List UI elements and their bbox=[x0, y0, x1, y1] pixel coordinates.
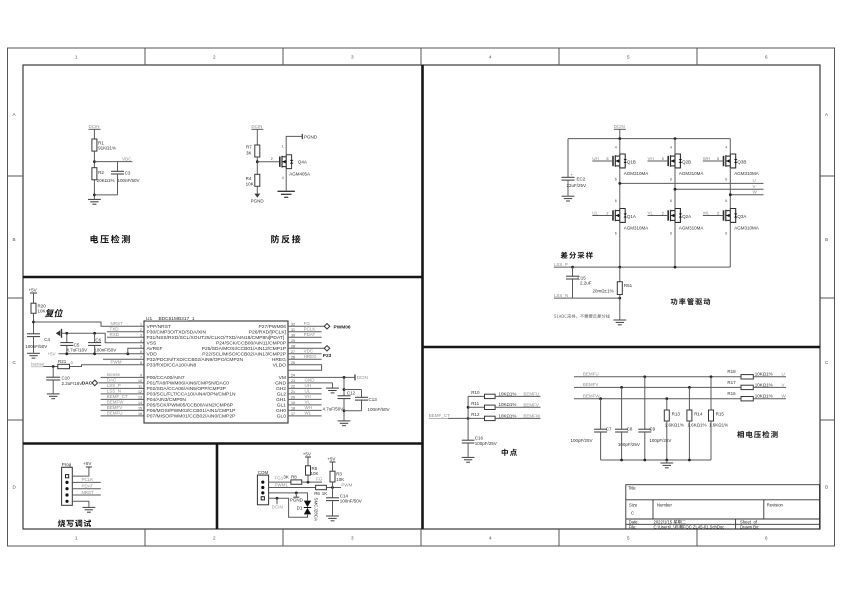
svg-text:LSS_N: LSS_N bbox=[554, 293, 568, 298]
svg-text:AGM405A: AGM405A bbox=[289, 171, 310, 176]
svg-text:4: 4 bbox=[725, 146, 727, 150]
net PCLK pin31 bbox=[288, 327, 322, 332]
svg-text:GL1: GL1 bbox=[277, 402, 287, 408]
resistor R4 bbox=[246, 174, 260, 186]
wire Q1A source to LSS rail bbox=[615, 223, 620, 268]
svg-text:1: 1 bbox=[282, 145, 284, 149]
node WH gate bbox=[703, 156, 724, 161]
svg-text:U: U bbox=[782, 372, 785, 377]
transistor Q1A bbox=[613, 209, 648, 231]
svg-text:P33/RXD/CCA10/AIN8: P33/RXD/CCA10/AIN8 bbox=[147, 362, 197, 368]
resistor R5 bbox=[306, 457, 319, 482]
svg-text:P06/MOSI/PWM03/CCB01/AIN1/CMP1: P06/MOSI/PWM03/CCB01/AIN1/CMP1P bbox=[147, 408, 236, 414]
svg-text:C3: C3 bbox=[125, 171, 131, 176]
power flag PGND (top) bbox=[302, 134, 317, 140]
svg-text:4.7uF/50V: 4.7uF/50V bbox=[323, 406, 344, 411]
net V rail bbox=[674, 184, 764, 191]
svg-text:10KΩ1%: 10KΩ1% bbox=[755, 372, 773, 377]
svg-text:GH0: GH0 bbox=[276, 408, 286, 414]
label 中点 bbox=[502, 449, 517, 456]
ground (R51) bbox=[613, 320, 626, 325]
svg-text:D1: D1 bbox=[297, 506, 303, 511]
svg-text:C16: C16 bbox=[475, 436, 484, 441]
net WH pin18 bbox=[288, 405, 322, 410]
svg-text:U: U bbox=[753, 178, 756, 183]
svg-text:5: 5 bbox=[140, 345, 142, 349]
ground (C4) bbox=[27, 353, 40, 358]
svg-text:P01/TA8/PWM06/AIN6/CMP5N/DAC0: P01/TA8/PWM06/AIN6/CMP5N/DAC0 bbox=[147, 380, 230, 386]
net WL pin17 bbox=[288, 411, 322, 416]
svg-text:C8: C8 bbox=[627, 427, 633, 432]
svg-text:Q1A: Q1A bbox=[627, 214, 636, 219]
svg-text:Number: Number bbox=[657, 503, 672, 508]
svg-text:Isense: Isense bbox=[31, 361, 45, 366]
svg-text:0: 0 bbox=[71, 361, 73, 365]
net +5V wire (VDD) bbox=[48, 352, 145, 357]
svg-text:FG: FG bbox=[304, 321, 311, 326]
ground (C14) bbox=[326, 516, 339, 521]
svg-text:VH: VH bbox=[305, 394, 311, 399]
capacitor C13 bbox=[344, 390, 390, 413]
svg-text:4: 4 bbox=[670, 146, 672, 150]
svg-text:AGM310MA: AGM310MA bbox=[734, 225, 759, 230]
label 防反接 bbox=[271, 235, 300, 244]
power flag DCIN (VM) bbox=[355, 374, 368, 380]
svg-text:C13: C13 bbox=[369, 397, 378, 402]
label 烧写调试 bbox=[58, 520, 91, 527]
node DCIN (reverse protect) bbox=[251, 124, 263, 145]
svg-text:1.6KΩ1%: 1.6KΩ1% bbox=[687, 423, 706, 428]
BLOCK-DIVIDERS bbox=[23, 65, 820, 529]
svg-text:+: + bbox=[571, 173, 573, 177]
ground (C16) bbox=[462, 457, 475, 462]
svg-text:4: 4 bbox=[615, 146, 617, 150]
net VH pin20 bbox=[288, 394, 322, 399]
wire top DC rail bbox=[568, 137, 730, 140]
svg-text:LSS_P: LSS_P bbox=[107, 383, 121, 388]
transistor Q2B bbox=[668, 154, 703, 176]
net VL pin19 bbox=[288, 400, 322, 405]
svg-text:NRST: NRST bbox=[111, 321, 124, 326]
svg-text:VL: VL bbox=[305, 400, 311, 405]
svg-text:UH: UH bbox=[592, 156, 599, 161]
svg-text:+5V: +5V bbox=[48, 352, 56, 357]
svg-text:1: 1 bbox=[75, 55, 78, 60]
wire R21 to PWM pin8 bbox=[70, 360, 145, 367]
resistor R14 bbox=[687, 387, 707, 460]
resistor R3 bbox=[330, 462, 344, 488]
wire Q4A drain to PGND rail bbox=[286, 136, 302, 154]
svg-text:Isense: Isense bbox=[107, 372, 121, 377]
transistor Q3B bbox=[724, 154, 759, 176]
ground (phase) bbox=[660, 460, 673, 468]
SECTION-VD bbox=[88, 124, 140, 243]
net U rail bbox=[618, 178, 763, 185]
svg-text:C15: C15 bbox=[578, 275, 587, 280]
svg-text:Prog: Prog bbox=[62, 462, 72, 467]
svg-text:C: C bbox=[631, 511, 634, 516]
svg-text:R51: R51 bbox=[624, 283, 633, 288]
resistor R11 bbox=[468, 401, 540, 409]
svg-text:14: 14 bbox=[138, 401, 142, 405]
svg-text:6: 6 bbox=[725, 178, 727, 182]
net GND pin23 bbox=[288, 378, 333, 388]
resistor R6 bbox=[314, 485, 327, 496]
svg-text:AGM310MA: AGM310MA bbox=[679, 225, 704, 230]
svg-text:6: 6 bbox=[670, 178, 672, 182]
svg-text:2: 2 bbox=[717, 211, 719, 215]
svg-text:RXD: RXD bbox=[110, 332, 120, 337]
svg-text:5: 5 bbox=[627, 536, 630, 541]
net HREG pin26 bbox=[288, 354, 322, 359]
node VL gate bbox=[648, 210, 669, 215]
svg-text:10K: 10K bbox=[311, 471, 319, 476]
net BEMFV rail bbox=[574, 382, 741, 389]
svg-text:13: 13 bbox=[138, 396, 142, 400]
svg-text:GND: GND bbox=[275, 380, 286, 386]
svg-text:C4: C4 bbox=[44, 337, 50, 342]
svg-text:UH: UH bbox=[305, 383, 312, 388]
svg-text:1.6KΩ1%: 1.6KΩ1% bbox=[709, 423, 728, 428]
diode D1 TVS bbox=[297, 498, 319, 522]
svg-text:R4: R4 bbox=[246, 176, 252, 181]
svg-text:PCLK: PCLK bbox=[82, 477, 94, 482]
svg-text:1: 1 bbox=[75, 536, 78, 541]
net LSS_N bbox=[554, 293, 621, 300]
ground (C12/C13) bbox=[338, 421, 351, 426]
svg-text:UL: UL bbox=[592, 210, 598, 215]
wire R1 to node VDC bbox=[93, 151, 95, 168]
svg-text:V: V bbox=[782, 382, 785, 387]
svg-text:P32/PDCIN/TXD/CCB02/AIN9/OPO/C: P32/PDCIN/TXD/CCB02/AIN9/OPO/CMP2N bbox=[147, 357, 244, 363]
svg-text:VSS: VSS bbox=[147, 340, 158, 346]
svg-text:LSS_N: LSS_N bbox=[107, 389, 121, 394]
svg-text:1: 1 bbox=[140, 323, 142, 327]
svg-text:PWM: PWM bbox=[341, 482, 352, 487]
svg-text:Q3B: Q3B bbox=[737, 159, 746, 164]
svg-text:20mΩ±1%: 20mΩ±1% bbox=[593, 288, 614, 293]
wire pin29 stub bbox=[288, 342, 322, 344]
svg-text:P26/RXD/[PCLK]: P26/RXD/[PCLK] bbox=[249, 329, 287, 335]
svg-text:DAC: DAC bbox=[82, 381, 93, 387]
svg-text:R12: R12 bbox=[471, 412, 480, 417]
svg-text:4: 4 bbox=[489, 536, 492, 541]
net PDAT pin30 bbox=[288, 332, 322, 337]
svg-text:B: B bbox=[13, 237, 16, 242]
svg-text:PWM06: PWM06 bbox=[334, 324, 351, 330]
wire pin25 loop bbox=[288, 365, 322, 371]
svg-text:AGM310MA: AGM310MA bbox=[679, 171, 704, 176]
resistor R8 bbox=[283, 474, 301, 484]
transistor Q2A bbox=[668, 209, 703, 231]
svg-text:BEMFW: BEMFW bbox=[523, 414, 541, 419]
svg-text:R16: R16 bbox=[727, 391, 736, 396]
node DCIN (voltage detect) bbox=[89, 124, 101, 139]
resistor R16 bbox=[727, 391, 786, 401]
svg-text:5: 5 bbox=[717, 157, 719, 161]
svg-text:R18: R18 bbox=[727, 369, 736, 374]
resistor R1 bbox=[92, 139, 116, 151]
svg-text:10K: 10K bbox=[246, 182, 254, 187]
svg-text:8: 8 bbox=[140, 361, 142, 365]
resistor R12 bbox=[468, 412, 541, 420]
svg-text:10KΩ1%: 10KΩ1% bbox=[755, 394, 773, 399]
svg-text:UL: UL bbox=[305, 389, 311, 394]
node WL gate bbox=[703, 210, 724, 215]
svg-text:20KΩ1%: 20KΩ1% bbox=[97, 178, 115, 183]
svg-text:WH: WH bbox=[703, 156, 711, 161]
net flag DAC bbox=[82, 378, 144, 387]
svg-text:EC2: EC2 bbox=[577, 177, 586, 182]
wire AVREF pin5 bbox=[128, 348, 144, 354]
svg-text:PGND: PGND bbox=[304, 134, 318, 139]
net DCIN (COM) bbox=[272, 498, 283, 509]
svg-text:BEMFV: BEMFV bbox=[523, 402, 539, 407]
svg-text:100pF/25V: 100pF/25V bbox=[571, 438, 593, 443]
power flag +5V (reset) bbox=[29, 288, 38, 304]
svg-text:DAC: DAC bbox=[107, 378, 117, 383]
svg-text:BEMFU: BEMFU bbox=[583, 372, 599, 377]
net PCLK (Prog) bbox=[72, 477, 101, 482]
net NRST wire bbox=[34, 321, 145, 326]
node gate Q4A bbox=[256, 157, 279, 163]
svg-text:100pF/25V: 100pF/25V bbox=[618, 442, 640, 447]
svg-text:GH2: GH2 bbox=[276, 386, 286, 392]
svg-text:VDD: VDD bbox=[147, 351, 158, 357]
svg-text:R21: R21 bbox=[58, 359, 67, 364]
svg-text:VL: VL bbox=[648, 210, 654, 215]
svg-text:DCIN: DCIN bbox=[272, 504, 283, 509]
svg-text:3K: 3K bbox=[283, 474, 289, 479]
connector Prog bbox=[62, 462, 73, 505]
capacitor C9 bbox=[638, 377, 671, 460]
net PDAT (Prog) bbox=[72, 484, 101, 489]
svg-text:5: 5 bbox=[627, 55, 630, 60]
net TXD bbox=[107, 327, 144, 332]
svg-text:6: 6 bbox=[765, 55, 768, 60]
svg-text:7: 7 bbox=[140, 356, 142, 360]
connector COM bbox=[257, 470, 268, 505]
svg-text:HREG: HREG bbox=[272, 357, 286, 363]
resistor R21 bbox=[58, 359, 73, 369]
svg-text:VH: VH bbox=[648, 156, 654, 161]
resistor R18 bbox=[727, 369, 786, 379]
svg-text:4.7uF/10V: 4.7uF/10V bbox=[66, 348, 87, 353]
svg-text:R17: R17 bbox=[727, 380, 736, 385]
svg-text:P22/SCL/MISO/CCB02/AIN13/CMP2P: P22/SCL/MISO/CCB02/AIN13/CMP2P bbox=[202, 351, 286, 357]
net Isense wire bbox=[31, 361, 58, 368]
svg-text:C6: C6 bbox=[95, 337, 101, 342]
wire Q2A source to LSS rail bbox=[670, 223, 675, 268]
svg-text:6: 6 bbox=[670, 232, 672, 236]
svg-text:10KΩ1%: 10KΩ1% bbox=[755, 382, 773, 387]
SECTION-MCU bbox=[25, 288, 389, 426]
net UH pin22 bbox=[288, 383, 322, 388]
svg-text:100pF/25V: 100pF/25V bbox=[475, 441, 497, 446]
svg-text:4: 4 bbox=[140, 339, 142, 343]
svg-text:DCIN: DCIN bbox=[89, 124, 100, 129]
svg-text:+5V: +5V bbox=[327, 457, 335, 462]
svg-text:BEMFV: BEMFV bbox=[583, 382, 599, 387]
svg-text:R13: R13 bbox=[672, 412, 681, 417]
U1 left pin numbers bbox=[138, 323, 142, 417]
svg-text:3: 3 bbox=[351, 536, 354, 541]
svg-text:16: 16 bbox=[138, 412, 142, 416]
net RXD bbox=[107, 332, 144, 337]
net LSS_P rail bbox=[554, 262, 730, 269]
U1 left pin names bbox=[147, 324, 285, 420]
net BEMFW rail bbox=[574, 394, 741, 401]
svg-text:10: 10 bbox=[138, 379, 142, 383]
svg-text:C7: C7 bbox=[606, 427, 612, 432]
svg-text:R11: R11 bbox=[471, 401, 479, 406]
resistor R2 bbox=[92, 168, 115, 184]
U1 right pin names bbox=[202, 324, 287, 420]
svg-text:10KΩ1%: 10KΩ1% bbox=[499, 391, 517, 396]
power flag PGND (bottom) bbox=[251, 186, 265, 203]
capacitor EC2 bbox=[562, 139, 587, 196]
svg-text:P02/SDA/CCA06/AIN5/OPP/CMP3P: P02/SDA/CCA06/AIN5/OPP/CMP3P bbox=[147, 386, 226, 392]
power arrow (VSS net) bbox=[56, 329, 62, 338]
capacitor C6 bbox=[88, 333, 116, 354]
svg-text:SMCJ28CA: SMCJ28CA bbox=[314, 498, 319, 522]
svg-text:WL: WL bbox=[305, 411, 312, 416]
svg-text:6: 6 bbox=[140, 350, 142, 354]
svg-text:2.2uF/16V: 2.2uF/16V bbox=[62, 381, 83, 386]
svg-text:WL: WL bbox=[703, 210, 710, 215]
svg-text:P03/SCL/FLT/CCA10/AIN4/OPN/CMP: P03/SCL/FLT/CCA10/AIN4/OPN/CMP1N bbox=[147, 391, 237, 397]
wire COM pin3 to D1 bbox=[269, 492, 308, 501]
svg-text:2: 2 bbox=[271, 157, 273, 161]
svg-text:1.6KΩ1%: 1.6KΩ1% bbox=[665, 423, 684, 428]
svg-text:6: 6 bbox=[765, 536, 768, 541]
capacitor C10 bbox=[46, 367, 82, 394]
wire Q1B source to U bbox=[615, 168, 620, 209]
net W rail bbox=[729, 190, 764, 197]
svg-text:P30/CMP3O/TXD/SDA/XIN: P30/CMP3O/TXD/SDA/XIN bbox=[147, 329, 207, 335]
svg-text:VPP/NRST: VPP/NRST bbox=[147, 324, 171, 330]
svg-text:2: 2 bbox=[213, 536, 216, 541]
capacitor C14 bbox=[326, 488, 362, 516]
node DCIN (power stage) bbox=[614, 124, 626, 138]
svg-text:C12: C12 bbox=[347, 391, 356, 396]
op-amp U1 body bbox=[144, 316, 288, 423]
svg-text:FG1: FG1 bbox=[275, 476, 284, 481]
svg-text:12: 12 bbox=[138, 390, 142, 394]
svg-text:+5V: +5V bbox=[29, 288, 37, 293]
ground (pin23) bbox=[326, 388, 339, 393]
power flag +5V (Prog) bbox=[72, 461, 92, 476]
net UL pin21 bbox=[288, 389, 322, 394]
resistor R7 bbox=[246, 145, 260, 157]
svg-text:File:: File: bbox=[629, 524, 637, 529]
svg-text:R2: R2 bbox=[98, 170, 104, 175]
svg-text:9: 9 bbox=[140, 374, 142, 378]
ground (EC2) bbox=[562, 196, 575, 201]
net FG pin32 bbox=[288, 321, 324, 326]
wire R8 to FG bbox=[302, 477, 323, 484]
svg-text:BEMFU: BEMFU bbox=[107, 411, 123, 416]
transistor Q1B bbox=[613, 154, 648, 176]
note text ADC bbox=[554, 314, 610, 318]
svg-text:FOC ZL45-01.SchDoc: FOC ZL45-01.SchDoc bbox=[683, 524, 724, 529]
power flag PGND (COM) bbox=[290, 493, 304, 503]
U1 right pin numbers bbox=[291, 323, 295, 417]
svg-text:R3: R3 bbox=[336, 472, 342, 477]
label 功率管驱动 bbox=[671, 298, 711, 305]
svg-text:B: B bbox=[825, 237, 828, 242]
svg-text:P04/AIN3/CMP0N: P04/AIN3/CMP0N bbox=[147, 397, 187, 403]
wire Q4A source to ground bbox=[285, 169, 287, 191]
net flag P23 pin28 bbox=[288, 346, 332, 359]
svg-text:R15: R15 bbox=[716, 412, 725, 417]
wire R20 to C4 bbox=[32, 313, 35, 334]
net PWM1 wire bbox=[269, 482, 316, 487]
svg-text:R14: R14 bbox=[694, 412, 703, 417]
net Isense pin9 bbox=[101, 372, 144, 377]
svg-text:GND: GND bbox=[305, 378, 316, 383]
svg-text:BEMF_CT: BEMF_CT bbox=[107, 394, 128, 399]
net flag PWM06 bbox=[324, 324, 351, 331]
capacitor C16 bbox=[462, 436, 497, 457]
svg-text:BEMF_CT: BEMF_CT bbox=[429, 413, 450, 418]
svg-text:C9: C9 bbox=[649, 427, 655, 432]
wire Q2B source to V bbox=[670, 168, 675, 209]
svg-text:6: 6 bbox=[615, 232, 617, 236]
resistor R15 bbox=[709, 377, 729, 460]
svg-text:PGND: PGND bbox=[290, 498, 304, 503]
node VDC bbox=[93, 156, 132, 163]
svg-text:C:\Users\..\: C:\Users\..\ bbox=[654, 524, 676, 529]
node VH gate bbox=[648, 156, 669, 161]
svg-text:10K: 10K bbox=[38, 309, 46, 314]
svg-text:P25/SDA/MOSI/CCB01/AIN12/CMP1P: P25/SDA/MOSI/CCB01/AIN12/CMP1P bbox=[202, 346, 286, 352]
net NRST (Prog) bbox=[72, 490, 101, 495]
transistor Q3A bbox=[724, 209, 759, 231]
svg-text:3K: 3K bbox=[246, 151, 252, 156]
svg-text:2.2uF: 2.2uF bbox=[580, 281, 592, 286]
label 差分采样 bbox=[561, 252, 593, 259]
svg-text:22uF/25V: 22uF/25V bbox=[567, 183, 587, 188]
svg-text:100pF/25V: 100pF/25V bbox=[649, 438, 671, 443]
resistor R51 bbox=[593, 267, 633, 319]
svg-text:2: 2 bbox=[607, 211, 609, 215]
capacitor C7 bbox=[571, 399, 613, 460]
node UL gate bbox=[592, 210, 613, 215]
svg-text:+5V: +5V bbox=[303, 452, 311, 457]
svg-text:BEMFV: BEMFV bbox=[107, 405, 123, 410]
svg-text:15: 15 bbox=[138, 407, 142, 411]
svg-text:6: 6 bbox=[725, 199, 727, 203]
svg-text:6: 6 bbox=[725, 232, 727, 236]
wire R2 to ground bbox=[93, 180, 118, 199]
svg-text:PWM: PWM bbox=[111, 360, 122, 365]
svg-text:100nF/50V: 100nF/50V bbox=[368, 407, 390, 412]
svg-text:100nF/50V: 100nF/50V bbox=[118, 178, 140, 183]
svg-text:91KΩ1%: 91KΩ1% bbox=[98, 146, 116, 151]
wire R6 to PWM bbox=[326, 482, 352, 489]
label 相电压检测 bbox=[737, 431, 778, 438]
svg-text:3: 3 bbox=[351, 55, 354, 60]
svg-text:P05/SCK/PWM05/CCB00/AIN2/CMP6P: P05/SCK/PWM05/CCB00/AIN2/CMP6P bbox=[147, 402, 233, 408]
svg-text:P24/SCK/CCB00/AIN11/CMP0P: P24/SCK/CCB00/AIN11/CMP0P bbox=[216, 340, 286, 346]
svg-text:2: 2 bbox=[140, 328, 142, 332]
TITLE-BLOCK bbox=[626, 485, 820, 529]
svg-text:P00/CCA00/AIN7: P00/CCA00/AIN7 bbox=[147, 375, 185, 381]
svg-text:Title: Title bbox=[628, 486, 636, 491]
svg-text:VDC: VDC bbox=[304, 349, 314, 354]
svg-text:Q4A: Q4A bbox=[298, 159, 307, 164]
